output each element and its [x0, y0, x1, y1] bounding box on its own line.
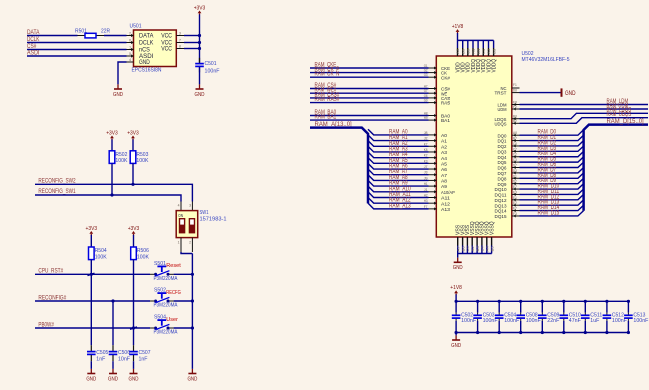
svg-text:A4: A4	[486, 246, 490, 251]
svg-text:C7: C7	[513, 146, 517, 151]
wire RECONFIG_SW1 to DIP pin4	[35, 195, 181, 202]
svg-text:RAS: RAS	[441, 101, 450, 107]
U502 pin G1 CKE	[429, 67, 437, 69]
wire RAM_D8 bus entry	[520, 173, 584, 178]
wire VCC pin7	[184, 42, 200, 44]
svg-text:RECONFIG_SW1: RECONFIG_SW1	[38, 188, 76, 195]
U502 pin H7 CS#	[429, 88, 437, 90]
wire RAM_D4 bus entry	[520, 151, 584, 156]
wire RAM_D3 bus entry	[520, 146, 584, 151]
resistor R501 22R	[78, 35, 86, 37]
wire RAM_UDM	[520, 108, 649, 110]
capacitor C502 100nF	[455, 301, 457, 312]
svg-text:K2: K2	[424, 153, 428, 158]
wire RAM_D2 bus entry	[520, 141, 584, 146]
svg-text:A2: A2	[441, 144, 447, 150]
svg-text:1nF: 1nF	[139, 357, 149, 363]
svg-text:+3V3: +3V3	[128, 226, 140, 232]
wire C501 to ground	[199, 67, 201, 84]
svg-text:C3: C3	[513, 157, 517, 162]
U502 pin DQ2	[512, 145, 520, 147]
wire RAM_A2 bus entry	[368, 141, 429, 147]
svg-text:C9: C9	[467, 49, 471, 54]
svg-text:K3: K3	[424, 158, 428, 163]
svg-text:F7: F7	[424, 204, 428, 209]
svg-text:DQ11: DQ11	[495, 193, 507, 199]
U502 pin K2 A4	[429, 157, 437, 159]
svg-text:B9: B9	[461, 49, 465, 54]
wire DATA to R501	[27, 35, 78, 37]
wire R502 down to RECONFIG_SW1	[111, 163, 113, 195]
svg-text:100K: 100K	[136, 158, 148, 164]
push button S504 User	[150, 327, 155, 329]
U502 pin DQ8	[512, 177, 520, 179]
svg-text:DQ4: DQ4	[498, 155, 507, 161]
wire cap bank bottom rail	[456, 332, 628, 334]
svg-text:VCC: VCC	[161, 47, 172, 53]
wire RAM_BA1	[310, 119, 429, 121]
svg-text:H2: H2	[424, 192, 428, 197]
svg-text:C501: C501	[205, 61, 217, 67]
svg-text:DATA: DATA	[139, 34, 153, 40]
U502 VDD pin C1	[482, 40, 484, 48]
svg-text:GND: GND	[108, 376, 118, 382]
U502 pin H2 A11	[429, 196, 437, 198]
svg-text:E7: E7	[513, 184, 517, 189]
svg-text:DQ7: DQ7	[498, 171, 507, 177]
svg-text:GND: GND	[129, 376, 139, 382]
wire VCC pin8	[184, 48, 200, 50]
svg-text:+3V3: +3V3	[106, 130, 118, 136]
capacitor C513 100nF	[627, 301, 629, 312]
wire RAM_D12 bus entry	[520, 194, 584, 199]
wire TRST to GND bar	[520, 92, 562, 94]
svg-text:F7: F7	[513, 206, 517, 211]
svg-text:DQ14: DQ14	[495, 209, 507, 215]
ground GND under U501	[117, 84, 119, 89]
svg-text:GND: GND	[113, 92, 123, 98]
wire VCC pin3	[184, 35, 200, 37]
wire C506 column	[112, 301, 114, 345]
svg-text:+3V3: +3V3	[86, 226, 98, 232]
svg-text:+1V8: +1V8	[450, 285, 462, 291]
svg-text:C507: C507	[139, 350, 151, 356]
svg-text:DQ3: DQ3	[498, 149, 507, 155]
svg-text:100nF: 100nF	[633, 318, 649, 324]
svg-text:1uF: 1uF	[590, 318, 600, 324]
svg-text:A1: A1	[472, 49, 476, 54]
svg-text:1nF: 1nF	[96, 357, 106, 363]
U502 VSS pin B4	[476, 237, 478, 246]
svg-text:A3: A3	[441, 150, 447, 156]
svg-text:B1: B1	[477, 49, 481, 54]
svg-text:DQ10: DQ10	[495, 187, 507, 193]
svg-text:A4: A4	[441, 156, 447, 162]
capacitor C509 22nF	[541, 301, 543, 312]
svg-text:E2: E2	[513, 200, 517, 205]
wire RAM_A1 bus entry	[368, 135, 429, 141]
svg-text:F2: F2	[513, 104, 517, 109]
svg-text:GND: GND	[195, 92, 205, 98]
svg-text:A11: A11	[441, 196, 450, 202]
wire R503 down to RECONFIG_SW2	[132, 163, 134, 184]
wire RAM_A6 bus entry	[368, 163, 429, 169]
svg-text:100nF: 100nF	[483, 318, 499, 324]
svg-text:RAM_D[15..0]: RAM_D[15..0]	[607, 118, 644, 125]
ground GND under C506	[112, 369, 114, 374]
svg-text:A9: A9	[456, 49, 460, 54]
svg-text:DQ2: DQ2	[498, 144, 507, 150]
U502 pin DQ7	[512, 172, 520, 174]
ground GND under U502	[457, 258, 459, 263]
svg-text:G3: G3	[424, 72, 428, 77]
svg-text:A6: A6	[441, 167, 447, 173]
svg-text:K7: K7	[424, 141, 428, 146]
push button S502 RECFG	[150, 300, 155, 302]
svg-text:1571983-1: 1571983-1	[200, 216, 227, 222]
svg-text:RAM_D15: RAM_D15	[538, 209, 560, 216]
svg-text:D3: D3	[513, 168, 517, 173]
svg-text:UDQS: UDQS	[495, 121, 507, 127]
U502 VDD pin A3	[488, 40, 490, 48]
wire RAM_CS#	[310, 88, 429, 90]
wire RAM_CK_P	[310, 72, 429, 74]
U502 pin J9 A8	[429, 179, 437, 181]
capacitor C503 100nF	[477, 301, 479, 312]
U502 pin G9 RAS	[429, 102, 437, 104]
svg-text:100nF: 100nF	[612, 318, 628, 324]
U502 pin J7 A6	[429, 168, 437, 170]
wire RAM_A5 bus entry	[368, 158, 429, 164]
svg-text:ASDI: ASDI	[27, 49, 40, 56]
wire RECONFIG_SW2 to DIP pin3	[35, 184, 192, 201]
U502 pin DQ5	[512, 161, 520, 163]
svg-text:CK#: CK#	[441, 75, 450, 81]
svg-text:VSSQ: VSSQ	[489, 221, 495, 235]
U502 pin DQ0	[512, 134, 520, 136]
wire RAM_D14 bus entry	[520, 205, 584, 210]
svg-text:C2: C2	[513, 152, 517, 157]
ground GND under cap bank	[455, 335, 457, 340]
wire RAM_D15 bus entry	[520, 211, 584, 216]
svg-text:C4: C4	[481, 246, 485, 251]
capacitor C506 10nF	[112, 345, 114, 351]
U502 VSS pin C4	[481, 237, 483, 246]
wire RAM_D10 bus entry	[520, 184, 584, 189]
svg-text:UDM: UDM	[498, 107, 507, 113]
wire RAM_A4 bus entry	[368, 152, 429, 158]
svg-text:100nF: 100nF	[504, 318, 520, 324]
svg-text:P3M220MA: P3M220MA	[154, 303, 178, 309]
wire C505 to ground	[90, 361, 92, 369]
wire C506 to ground	[112, 361, 114, 369]
U502 pin H3 A12	[429, 202, 437, 204]
svg-text:E1: E1	[513, 195, 517, 200]
wire RAM_A7 bus entry	[368, 169, 429, 175]
capacitor C510 47nF	[563, 301, 565, 312]
wire RAM_CK_N	[310, 76, 429, 78]
push button S501 Reset	[150, 273, 155, 275]
svg-text:R506: R506	[137, 248, 149, 254]
wire VDD comb rail	[458, 39, 494, 41]
svg-text:K8: K8	[424, 147, 428, 152]
U502 pin K8 A3	[429, 151, 437, 153]
wire RAM_A11 bus entry	[368, 192, 429, 198]
svg-text:U501: U501	[130, 23, 142, 29]
svg-text:H3: H3	[424, 198, 428, 203]
U502 pin G2 CK	[429, 72, 437, 74]
U502 pin DQ12	[512, 199, 520, 201]
svg-text:GND: GND	[187, 376, 197, 382]
wire PB0W# row	[35, 327, 150, 329]
U501 pin 3 VCC	[176, 35, 184, 37]
U502 VSS pin B6	[462, 237, 464, 246]
bus RAM_D[15..0]	[584, 125, 648, 211]
ground GND power port at TRST	[561, 88, 563, 96]
U502 VSS pin C6	[466, 237, 468, 246]
resistor R506 100K	[131, 247, 137, 260]
DIP switch bottom pins 1 2	[180, 238, 182, 252]
U502 pin F2 UDM	[512, 108, 520, 110]
capacitor C511 1uF	[584, 301, 586, 312]
U502 VSS pin A2	[471, 237, 473, 246]
U502 pin B2 UDQS	[512, 122, 520, 124]
svg-text:GND: GND	[453, 265, 463, 271]
svg-text:DQ13: DQ13	[495, 203, 507, 209]
svg-text:GND: GND	[139, 60, 150, 66]
svg-text:PB0W#: PB0W#	[38, 321, 54, 328]
svg-text:E3: E3	[513, 189, 517, 194]
wire RAM_A3 bus entry	[368, 146, 429, 152]
U502 pin DQ1	[512, 140, 520, 142]
wire ASDI	[27, 55, 127, 57]
U502 pin K7 A2	[429, 145, 437, 147]
wire VSS rail to ground	[457, 254, 459, 258]
svg-text:H9: H9	[424, 115, 428, 120]
svg-text:C505: C505	[96, 350, 108, 356]
svg-text:100nF: 100nF	[205, 69, 221, 75]
svg-text:A0: A0	[441, 133, 447, 139]
U502 pin H9 BA1	[429, 119, 437, 121]
svg-text:D1: D1	[513, 173, 517, 178]
svg-text:RECONFIG_SW2: RECONFIG_SW2	[38, 177, 76, 184]
wire RAM_LDM	[520, 104, 649, 106]
svg-text:B7: B7	[513, 136, 517, 141]
wire RAM_D5 bus entry	[520, 157, 584, 162]
U502 VSS pin A7	[457, 237, 459, 246]
wire jog at PB0W# junction	[130, 327, 137, 329]
svg-text:R501: R501	[75, 28, 87, 34]
svg-text:C8: C8	[513, 141, 517, 146]
svg-text:DQ12: DQ12	[495, 198, 507, 204]
svg-text:B4: B4	[476, 246, 480, 251]
wire RAM_A0 bus entry	[368, 129, 429, 135]
svg-text:VCC: VCC	[161, 34, 172, 40]
svg-text:Reset: Reset	[166, 263, 181, 269]
svg-text:F3: F3	[513, 211, 517, 216]
bus RAM_A[13..0]	[310, 128, 368, 204]
capacitor C505 1nF	[90, 345, 92, 351]
U501 pin 1 nCS	[127, 49, 134, 51]
U502 pin K3 A5	[429, 162, 437, 164]
svg-text:A7: A7	[441, 173, 447, 179]
DIP switch SW1 1571983-1	[180, 202, 182, 211]
wire RAM_UDQS	[520, 118, 649, 124]
wire R504 down to C505 and ground	[90, 260, 92, 346]
U502 pin G7 WE	[429, 92, 437, 94]
ground GND under C507	[133, 369, 135, 374]
svg-text:H1: H1	[424, 181, 428, 186]
wire CS#	[27, 49, 127, 51]
svg-text:22R: 22R	[101, 28, 110, 34]
U502 pin H1 A9	[429, 185, 437, 187]
svg-text:C6: C6	[466, 246, 470, 251]
capacitor C507 1nF	[133, 345, 135, 351]
U502 pin DQ14	[512, 210, 520, 212]
U502 pin DQ6	[512, 167, 520, 169]
capacitor C501 100nF	[199, 58, 201, 63]
U502 pin G8 CAS	[429, 97, 437, 99]
wire DIP bottom pins common	[181, 252, 192, 254]
svg-text:A7: A7	[456, 246, 460, 251]
svg-text:+1V8: +1V8	[452, 24, 464, 30]
svg-text:RECONFIG#: RECONFIG#	[38, 294, 66, 301]
svg-text:B2: B2	[513, 118, 517, 123]
capacitor C508 100nF	[520, 301, 522, 312]
U501 pin 6 DCLK	[127, 42, 134, 44]
wire jog at CPU_RST# junction	[88, 273, 95, 275]
svg-text:RECFG: RECFG	[166, 290, 181, 296]
wire RAM_CAS#	[310, 97, 429, 99]
U501 pin 4 GND	[127, 61, 134, 63]
wire RAM_A10 bus entry	[368, 186, 429, 192]
svg-text:nCS: nCS	[139, 48, 150, 54]
wire RAM_RAS#	[310, 102, 429, 104]
wire CPU_RST# row	[35, 273, 150, 275]
svg-text:A13: A13	[441, 207, 450, 213]
U502 VSS pin A4	[486, 237, 488, 246]
svg-text:C506: C506	[118, 350, 130, 356]
svg-text:G9: G9	[424, 98, 428, 103]
U501 pin 5 ASDI	[127, 55, 134, 57]
svg-text:DQ6: DQ6	[498, 166, 507, 172]
svg-text:DQ9: DQ9	[498, 182, 507, 188]
U502 pin F8 LDM	[512, 104, 520, 106]
U502 pin DQ13	[512, 204, 520, 206]
svg-text:A1: A1	[441, 139, 447, 145]
capacitor C512 100nF	[606, 301, 608, 312]
ground GND under C505	[90, 369, 92, 374]
U502 VDD pin B1	[477, 40, 479, 48]
U502 pin G3 CK#	[429, 76, 437, 78]
wire DCLK	[27, 42, 127, 44]
wire RAM_D6 bus entry	[520, 162, 584, 167]
svg-text:GND: GND	[86, 376, 96, 382]
svg-text:DATA: DATA	[27, 29, 40, 36]
svg-text:DCLK: DCLK	[139, 41, 153, 47]
U501 pin 8 VCC	[176, 48, 184, 50]
wire RAM_D0 bus entry	[520, 130, 584, 135]
svg-text:DQ5: DQ5	[498, 160, 507, 166]
U502 VDD pin C9	[467, 40, 469, 48]
svg-text:BA1: BA1	[441, 118, 450, 124]
wire cap bank to ground	[455, 333, 457, 336]
U502 pin J2 A1	[429, 140, 437, 142]
svg-text:A3: A3	[487, 49, 491, 54]
wire R506 down through to user row	[133, 260, 135, 346]
U502 VDD pin A9	[457, 40, 459, 48]
ground GND under C501	[199, 84, 201, 89]
svg-text:S501: S501	[154, 261, 166, 267]
svg-text:DCLK: DCLK	[27, 36, 39, 43]
svg-text:D7: D7	[513, 163, 517, 168]
U502 pin F1 NC	[512, 87, 520, 89]
wire RAM_A12 bus entry	[368, 197, 429, 203]
ground GND buttons common	[191, 369, 193, 374]
capacitor C504 100nF	[498, 301, 500, 312]
svg-text:DQ8: DQ8	[498, 176, 507, 182]
wire RAM_D7 bus entry	[520, 167, 584, 172]
svg-text:100K: 100K	[95, 254, 107, 260]
wire common button net down to ground	[191, 254, 193, 369]
svg-text:100K: 100K	[137, 254, 149, 260]
svg-text:10nF: 10nF	[118, 357, 131, 363]
svg-text:CPU_RST#: CPU_RST#	[38, 268, 63, 275]
svg-text:RAM_A13: RAM_A13	[389, 202, 411, 209]
svg-text:A12: A12	[441, 201, 450, 207]
wire RAM_LDQS	[520, 113, 649, 118]
U502 VSS pin B5	[491, 237, 493, 246]
U502 pin B8 LDQS	[512, 118, 520, 120]
resistor R503 100K	[130, 151, 136, 164]
U502 pin F7 A13	[429, 208, 437, 210]
svg-text:MT46V32M16LFBF-5: MT46V32M16LFBF-5	[522, 57, 570, 63]
svg-text:U502: U502	[522, 51, 534, 57]
U502 VDD pin B9	[462, 40, 464, 48]
svg-text:100K: 100K	[115, 158, 127, 164]
U502 pin DQ4	[512, 156, 520, 158]
wire cap bank top rail	[456, 300, 628, 302]
wire RECONFIG# row	[35, 300, 150, 302]
svg-text:A8: A8	[513, 130, 517, 135]
IC U501 EPCS16 serial config flash	[134, 30, 177, 67]
wire RAM_D9 bus entry	[520, 178, 584, 183]
svg-text:D8: D8	[513, 87, 517, 92]
svg-text:EPCS16SI8N: EPCS16SI8N	[132, 68, 162, 74]
svg-text:P3M220MA: P3M220MA	[154, 276, 178, 282]
svg-text:C1: C1	[482, 49, 486, 54]
svg-text:A8: A8	[441, 179, 447, 185]
svg-text:SW1: SW1	[200, 210, 209, 216]
U502 pin J3 A7	[429, 174, 437, 176]
svg-text:+3V3: +3V3	[194, 5, 206, 11]
wire RAM_A9 bus entry	[368, 180, 429, 186]
wire C507 to ground	[133, 361, 135, 369]
svg-text:B6: B6	[461, 246, 465, 251]
svg-text:B5: B5	[490, 246, 494, 251]
U501 pin 7 VCC	[176, 42, 184, 44]
svg-text:TRST: TRST	[495, 91, 507, 97]
svg-text:47nF: 47nF	[569, 318, 582, 324]
U502 VDD pin B3	[493, 40, 495, 48]
wire VSS comb rail	[458, 253, 492, 255]
wire RAM_D11 bus entry	[520, 189, 584, 194]
U502 pin DQ3	[512, 150, 520, 152]
svg-text:D2: D2	[513, 179, 517, 184]
wire +3V3 rail down to C501	[199, 14, 201, 62]
svg-text:VDDQ: VDDQ	[491, 59, 497, 73]
svg-text:DQ1: DQ1	[498, 139, 507, 145]
